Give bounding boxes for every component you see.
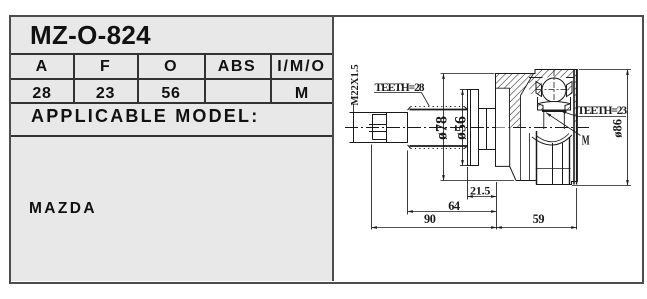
dim 90 extension left (371, 145, 373, 230)
label APPLICABLE MODEL: (31, 106, 259, 127)
cage wedge left (536, 82, 542, 97)
housing left wall hatch (496, 74, 534, 128)
table v-line O|ABS (204, 55, 206, 103)
boot groove section (479, 109, 496, 150)
header I/M/O (271, 58, 332, 76)
dim o56 extension bottom (460, 165, 468, 167)
cage outer edge lines (529, 77, 574, 79)
header ABS (205, 58, 269, 76)
stub left-end ticks (350, 112, 354, 114)
value I/M/O M (271, 85, 332, 103)
housing inner wall (521, 74, 534, 128)
race side walls (538, 97, 571, 110)
dim o78 extension bottom (441, 180, 515, 182)
race-to-cage verticals (544, 111, 565, 129)
housing outline (496, 70, 578, 185)
table h-line 1 (11, 53, 332, 55)
threaded stub shaft body (354, 113, 408, 143)
dim 59 line (497, 227, 577, 229)
svg-text:TEETH=23: TEETH=23 (577, 105, 627, 117)
dim o56 extension top (460, 89, 468, 91)
housing neck vertical (509, 128, 511, 167)
table v-line ABS|I/M/O (270, 55, 272, 103)
M leader (546, 113, 581, 136)
dim 90 line (372, 227, 497, 229)
table h-line 2 (11, 78, 332, 80)
race bore thick line (542, 110, 567, 112)
stub mid band (369, 125, 387, 132)
header O (139, 58, 203, 76)
mouth bore bottom (536, 168, 571, 170)
ring right face double lines (573, 70, 575, 185)
dim o78 line (443, 74, 445, 181)
table h-line 4 (11, 135, 332, 137)
table v-line F|O (137, 55, 139, 103)
svg-text:M: M (582, 134, 590, 148)
cage wedge right (567, 82, 573, 97)
dim 21.5 extension left (467, 167, 469, 200)
race hatch right (565, 104, 571, 110)
dim o86 extension top (579, 69, 631, 71)
dim o56 line (462, 90, 464, 166)
table h-line 3 (11, 102, 332, 104)
value O 56 (139, 85, 203, 103)
disc left face double line (470, 90, 472, 166)
table v-line A|F (73, 55, 75, 103)
stub washer right face (386, 113, 388, 143)
dim 59 extension right (576, 188, 578, 230)
svg-text:59: 59 (533, 212, 545, 226)
bore hole edges (496, 88, 510, 127)
TEETH=28 underline and leader (374, 93, 429, 107)
dim o86 line (627, 70, 629, 186)
value F 23 (74, 85, 137, 103)
svg-text:90: 90 (424, 212, 436, 226)
dim 64 line (408, 211, 497, 213)
svg-text:ø78: ø78 (434, 116, 451, 140)
table gray background (11, 17, 332, 281)
TEETH=23 underline and leader (561, 111, 627, 117)
ball crosshair (537, 89, 570, 91)
svg-text:64: 64 (448, 199, 460, 213)
shared extension right (90/64/21.5/59) (496, 182, 498, 230)
value A 28 (11, 85, 73, 103)
housing back bore hole (white) (496, 88, 510, 127)
spline chamfer left (408, 107, 411, 149)
svg-text:ø56: ø56 (453, 116, 470, 140)
ball bearing (542, 78, 566, 102)
svg-text:ø86: ø86 (611, 119, 625, 138)
inner race below ball (538, 102, 571, 111)
title MZ-O-824 (30, 20, 330, 51)
svg-text:21.5: 21.5 (470, 184, 490, 198)
disc (o56 land) (468, 90, 479, 166)
header F (74, 58, 137, 76)
spline shaft TEETH=28 tip lines (dotted) (411, 107, 465, 149)
dim o78 extension top (441, 73, 495, 75)
race hatch left (538, 104, 544, 110)
table/drawing divider (332, 17, 334, 281)
mouth cavity verticals (521, 128, 530, 181)
dim 21.5 line (468, 196, 497, 198)
groove mid rib (486, 109, 488, 150)
label MAZDA (29, 200, 97, 218)
dim 64 extension left (407, 151, 409, 215)
M22X1.5 extension tick (353, 105, 355, 113)
header A (11, 58, 73, 76)
stub washer inner rect (373, 115, 387, 140)
main centerline (345, 127, 589, 129)
svg-text:M22X1.5: M22X1.5 (350, 64, 361, 105)
dim o86 extension bottom (572, 185, 631, 187)
svg-text:TEETH=28: TEETH=28 (375, 82, 425, 94)
cage bottom arc (532, 135, 572, 145)
spline thick root lines (410, 110, 468, 147)
housing ring band and right wall hatch (535, 70, 577, 123)
spline chamfer right (465, 107, 468, 149)
housing left cage-zone hatch (529, 78, 542, 95)
